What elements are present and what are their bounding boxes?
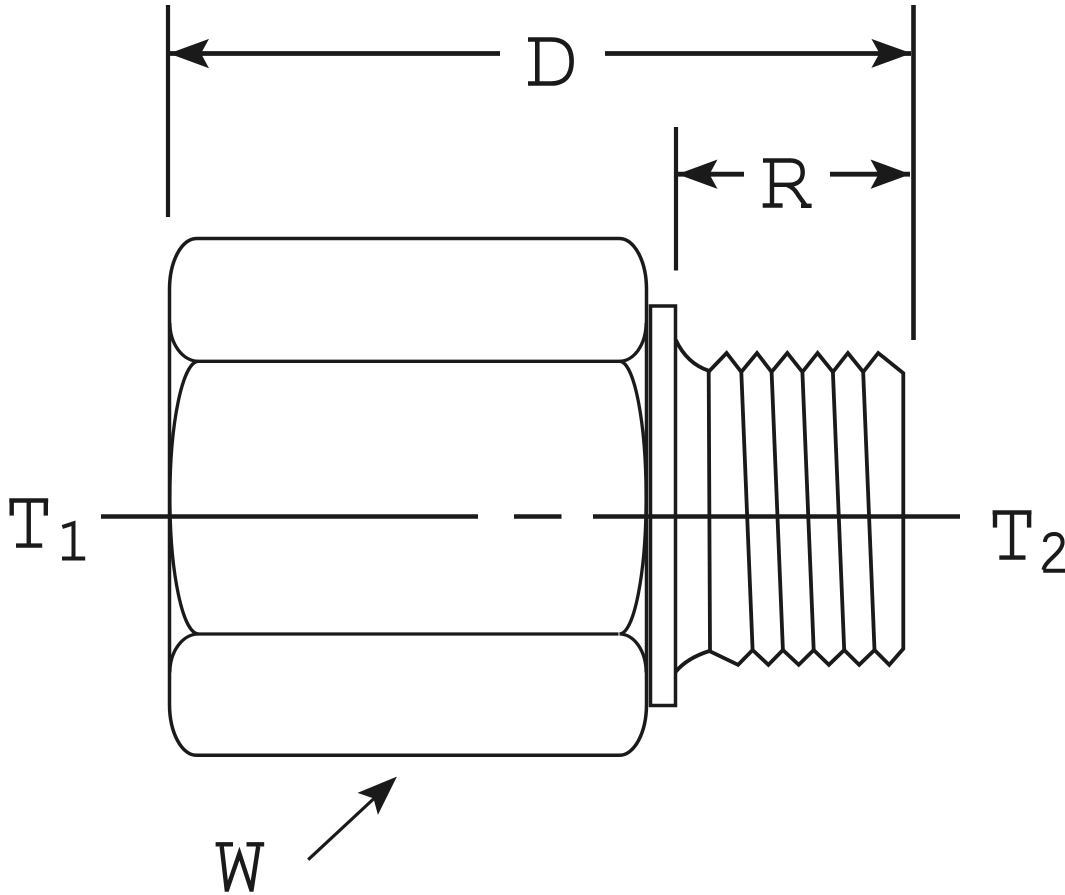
- thread helix line 3: [772, 372, 783, 650]
- dimension R: left arrowhead: [678, 160, 718, 189]
- dimension R: right shaft: [830, 172, 910, 177]
- label T1 subscript 1: [62, 523, 85, 558]
- hex top band chamfer arc right: [620, 323, 647, 362]
- label T2 subscript 2: [1043, 534, 1065, 571]
- thread helix line 4: [802, 372, 813, 650]
- label D: [528, 40, 572, 84]
- W leader arrow shaft: [308, 799, 374, 860]
- label R: [763, 161, 812, 206]
- dimension R: left extension line: [674, 127, 678, 271]
- thread helix line 2: [741, 372, 752, 650]
- dimension D: left extension line: [166, 5, 170, 217]
- label T2: [993, 513, 1032, 558]
- hex top band chamfer arc left: [170, 323, 199, 362]
- label W: [216, 844, 265, 889]
- label T1: [9, 501, 48, 546]
- thread helix line 5: [833, 372, 844, 650]
- hex bottom face line: [198, 632, 619, 635]
- dimension D: right shaft: [605, 51, 911, 56]
- hex top face line: [199, 360, 620, 363]
- W leader arrowhead: [358, 777, 397, 815]
- dimension R: right arrowhead: [871, 160, 911, 189]
- dimension D: right extension line (shared with R): [911, 5, 916, 340]
- hex bottom band chamfer arc left: [170, 634, 199, 672]
- thread helix line 6: [863, 373, 874, 651]
- hex body silhouette: [170, 239, 647, 756]
- hex mid band arc left: [170, 361, 199, 634]
- dimension D: right arrowhead: [871, 39, 911, 68]
- thread helix line 1: [709, 372, 710, 651]
- flange collar: [651, 306, 676, 706]
- thread profile outline: [676, 340, 904, 672]
- hex mid band arc right: [620, 361, 647, 634]
- centerline (dash-dot): [101, 514, 478, 519]
- dimension D: left shaft: [169, 51, 500, 56]
- dimension D: left arrowhead: [169, 39, 209, 68]
- dimension R: left shaft: [677, 172, 744, 177]
- hex bottom band chamfer arc right: [620, 634, 647, 672]
